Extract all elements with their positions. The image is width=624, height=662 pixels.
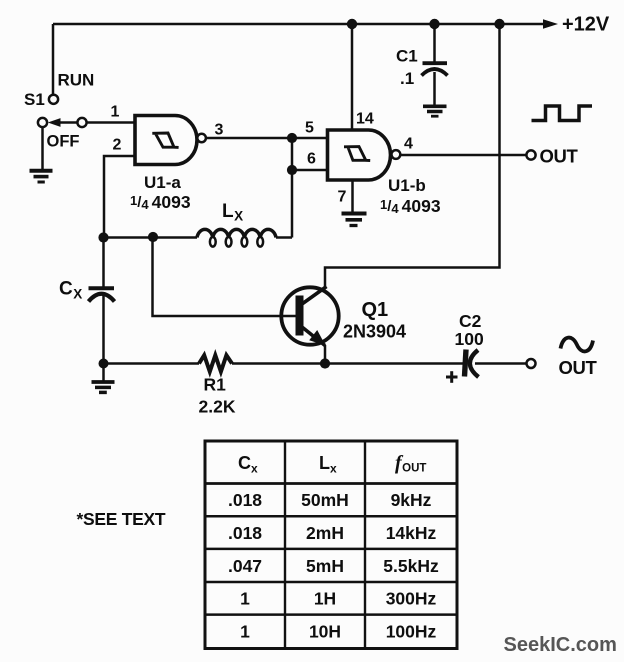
- svg-text:14: 14: [356, 111, 374, 128]
- svg-text:1: 1: [111, 104, 120, 121]
- svg-text:2mH: 2mH: [306, 523, 344, 543]
- svg-text:OFF: OFF: [47, 133, 80, 151]
- wire pin 5: [292, 137, 328, 140]
- node pin6 junction: [287, 165, 297, 175]
- svg-text:C1: C1: [396, 47, 418, 66]
- C2 plus polarity: [446, 371, 458, 383]
- Q1 emitter lead: [302, 327, 325, 346]
- node pin14 junction on rail: [347, 19, 357, 29]
- wire pin 4 output to OUT: [400, 154, 526, 157]
- capacitor Cx: [89, 288, 115, 301]
- svg-text:Lx: Lx: [319, 453, 337, 476]
- svg-text:1H: 1H: [314, 589, 336, 609]
- wire base feedback: [153, 237, 296, 317]
- wire S1 stem to rail: [52, 24, 55, 95]
- wire emitter to rail: [324, 345, 327, 364]
- Q1 emitter arrow: [309, 330, 325, 346]
- node pin5 junction: [287, 133, 297, 143]
- svg-text:+12V: +12V: [562, 14, 610, 36]
- svg-text:2.2K: 2.2K: [199, 397, 236, 417]
- svg-text:.1: .1: [400, 69, 414, 88]
- U1-b output bubble: [392, 150, 401, 159]
- +12V supply arrow: [543, 19, 558, 29]
- svg-text:14kHz: 14kHz: [386, 523, 437, 543]
- Q1 base bar: [296, 296, 304, 336]
- node bottom-left junction: [99, 359, 109, 369]
- svg-text:S1: S1: [24, 90, 45, 109]
- terminal OUT (sine): [527, 359, 536, 368]
- svg-text:R1: R1: [204, 375, 227, 395]
- op-amp U1-a (NAND gate body): [135, 116, 197, 165]
- wire node to Cx: [102, 238, 105, 287]
- op-amp U1-b (NAND gate body): [328, 130, 391, 180]
- svg-text:OUT: OUT: [540, 145, 579, 166]
- svg-text:50mH: 50mH: [301, 490, 349, 510]
- svg-text:100Hz: 100Hz: [386, 622, 437, 642]
- ground U1-b pin7: [342, 214, 367, 226]
- svg-text:2: 2: [113, 137, 122, 154]
- wire junction down to inductor: [291, 138, 294, 238]
- svg-text:1/44093: 1/44093: [380, 196, 441, 216]
- node collector junction on rail: [494, 19, 504, 29]
- svg-text:300Hz: 300Hz: [386, 589, 437, 609]
- svg-text:3: 3: [215, 122, 224, 139]
- svg-text:1: 1: [240, 622, 250, 642]
- ground bottom rail: [92, 364, 115, 393]
- svg-text:5: 5: [305, 120, 314, 137]
- U1-a schmitt hysteresis symbol: [152, 133, 178, 147]
- capacitor C2: [465, 350, 479, 378]
- node base feedback junction: [148, 232, 158, 242]
- svg-text:OUT: OUT: [559, 357, 598, 378]
- svg-text:7: 7: [338, 189, 347, 206]
- switch S1 RUN contact: [49, 95, 58, 104]
- switch arm arrow: [58, 121, 77, 124]
- square wave icon: [532, 106, 593, 121]
- wire oscillator node horizontal: [104, 236, 198, 239]
- svg-text:4: 4: [404, 136, 413, 153]
- sine wave icon: [561, 338, 594, 352]
- svg-text:.018: .018: [228, 490, 262, 510]
- svg-text:LX: LX: [222, 201, 243, 224]
- switch S1 throw contact: [77, 118, 86, 127]
- switch S1 pole (OFF position): [38, 118, 47, 127]
- wire collector riser: [325, 24, 500, 288]
- svg-text:5.5kHz: 5.5kHz: [383, 556, 439, 576]
- U1-a output bubble: [197, 134, 206, 143]
- svg-text:6: 6: [307, 151, 316, 168]
- svg-text:U1-a: U1-a: [144, 173, 181, 192]
- ground C1: [423, 106, 447, 116]
- transistor Q1: [281, 287, 338, 344]
- svg-text:5mH: 5mH: [306, 556, 344, 576]
- svg-text:Cx: Cx: [238, 453, 258, 476]
- wire pin 3 output: [206, 137, 288, 140]
- capacitor C1: [422, 63, 448, 75]
- node C1 junction on rail: [429, 19, 439, 29]
- wire Cx to bottom rail: [102, 292, 105, 364]
- node emitter junction: [320, 358, 330, 368]
- wire pin 6: [292, 169, 328, 172]
- wire top +12V rail: [53, 23, 546, 26]
- svg-text:*SEE TEXT: *SEE TEXT: [77, 509, 166, 529]
- inductor Lx: [197, 229, 276, 246]
- wire pin 2 input: [104, 156, 136, 238]
- svg-text:RUN: RUN: [58, 71, 95, 90]
- svg-text:Q1: Q1: [362, 299, 389, 321]
- svg-text:CX: CX: [59, 279, 82, 302]
- svg-text:1/44093: 1/44093: [130, 192, 191, 212]
- svg-text:.047: .047: [228, 556, 262, 576]
- ground S1: [30, 171, 53, 182]
- U1-b schmitt hysteresis symbol: [344, 147, 370, 161]
- svg-text:C2: C2: [459, 311, 482, 331]
- wire pin 1 input: [87, 121, 136, 124]
- svg-text:1: 1: [240, 589, 250, 609]
- wire S1 pole to ground: [41, 127, 44, 171]
- svg-text:SeekIC.com: SeekIC.com: [504, 634, 617, 656]
- svg-text:.018: .018: [228, 523, 262, 543]
- wire bottom rail right: [232, 362, 463, 365]
- wire C1 to ground: [433, 72, 436, 105]
- wire inductor to riser: [276, 236, 292, 239]
- svg-text:9kHz: 9kHz: [391, 490, 432, 510]
- table frequency chart: [205, 441, 457, 649]
- wire bottom rail left: [104, 362, 200, 365]
- resistor R1: [199, 355, 232, 371]
- svg-text:10H: 10H: [309, 622, 341, 642]
- wire rail to C1: [433, 24, 436, 62]
- svg-text:U1-b: U1-b: [388, 176, 426, 195]
- node Cx top junction: [98, 232, 108, 242]
- svg-text:fOUT: fOUT: [395, 452, 426, 475]
- wire pin 14 to rail: [351, 24, 354, 130]
- Q1 collector lead: [302, 287, 327, 305]
- wire C2 to OUT: [475, 362, 527, 365]
- terminal OUT (square wave): [526, 150, 535, 159]
- svg-text:2N3904: 2N3904: [343, 322, 406, 342]
- svg-text:100: 100: [455, 329, 484, 349]
- wire pin 7 to ground: [351, 180, 354, 213]
